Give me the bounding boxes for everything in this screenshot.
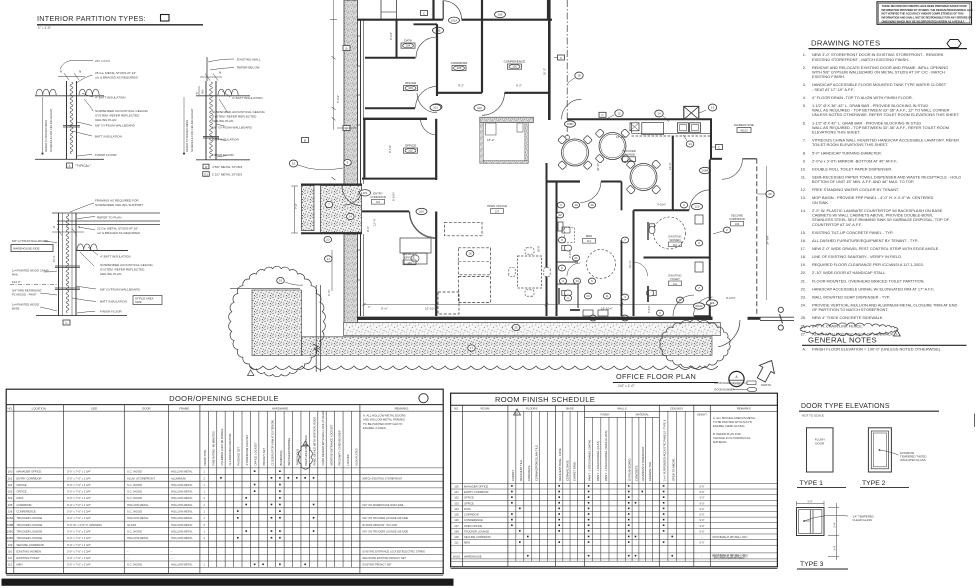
svg-text:104: 104 <box>406 44 411 48</box>
door type 1 <box>807 428 834 472</box>
svg-text:108: 108 <box>454 529 459 533</box>
svg-text:9'-0": 9'-0" <box>699 485 704 489</box>
corridor-conference bottom wall <box>437 92 482 94</box>
svg-text:EXISTING TOILET: EXISTING TOILET <box>17 556 40 560</box>
svg-text:10.: 10. <box>801 166 806 171</box>
bottom exterior wall <box>357 317 713 320</box>
svg-text:MEN: MEN <box>586 234 592 238</box>
svg-text:9'-0": 9'-0" <box>699 501 704 505</box>
svg-text:HOLLOW METAL: HOLLOW METAL <box>171 490 193 494</box>
svg-text:PASSAGE SET: PASSAGE SET <box>237 447 241 466</box>
svg-text:HOLLOW METAL: HOLLOW METAL <box>171 529 193 533</box>
svg-text:110: 110 <box>695 205 700 209</box>
svg-text:SIZE: SIZE <box>91 406 97 410</box>
svg-text:5.: 5. <box>803 103 806 108</box>
interior dimension line <box>364 304 710 306</box>
svg-text:14.: 14. <box>801 208 806 213</box>
svg-text:FINISH FLOOR: FINISH FLOOR <box>212 153 234 157</box>
gravel band with cloud <box>302 337 713 356</box>
svg-text:21: 21 <box>574 256 578 260</box>
svg-text:101: 101 <box>363 191 368 195</box>
svg-text:OFFICE: OFFICE <box>405 144 416 148</box>
svg-text:112: 112 <box>454 541 459 545</box>
svg-text:PLYWOOD - PAINT: PLYWOOD - PAINT <box>12 293 37 297</box>
svg-text:DRAWING NOTES: DRAWING NOTES <box>811 39 880 48</box>
svg-text:KEY ON WAREHOUSE W102 SIDE: KEY ON WAREHOUSE W102 SIDE <box>363 503 404 507</box>
svg-text:B: B <box>345 126 347 130</box>
svg-text:FINISH FLOOR: FINISH FLOOR <box>95 153 117 157</box>
svg-text:REFER TO PLAN: REFER TO PLAN <box>97 216 121 220</box>
existing sidewalk edge lines <box>315 285 317 372</box>
svg-text:3'-0" x 7'-0" x 1 3/4": 3'-0" x 7'-0" x 1 3/4" <box>67 543 91 547</box>
svg-text:STOREROOM LOCKSET: STOREROOM LOCKSET <box>245 434 249 465</box>
svg-text:3'-0" x 7'-0" x 1 3/4": 3'-0" x 7'-0" x 1 3/4" <box>67 556 91 560</box>
svg-text:9'-⅝": 9'-⅝" <box>366 226 370 232</box>
svg-text:CORRIDOR: CORRIDOR <box>451 61 469 65</box>
svg-text:102: 102 <box>454 496 459 500</box>
svg-text:ROOM NAME: ROOM NAME <box>715 381 732 385</box>
svg-text:OFFICE: OFFICE <box>17 483 27 487</box>
svg-text:30'-⅝": 30'-⅝" <box>596 163 600 171</box>
svg-text:3'-0" x 7'-0" x 1 3/4": 3'-0" x 7'-0" x 1 3/4" <box>67 529 91 533</box>
svg-text:BASE: BASE <box>566 407 574 411</box>
door arc into lounge <box>562 99 582 119</box>
svg-text:OFFICE LOCKSET: OFFICE LOCKSET <box>253 442 257 466</box>
svg-text:HARDWARE: HARDWARE <box>272 406 288 410</box>
svg-text:HOLLOW METAL: HOLLOW METAL <box>127 503 149 507</box>
svg-text:3'-0" x 7'-0" x 1 3/4": 3'-0" x 7'-0" x 1 3/4" <box>67 470 91 474</box>
svg-text:DOOR: DOOR <box>142 406 150 410</box>
svg-text:25: 25 <box>514 326 518 330</box>
svg-text:CEILING PLAN: CEILING PLAN <box>212 119 233 123</box>
svg-text:BUMPER(S): BUMPER(S) <box>279 450 283 465</box>
svg-text:14: 14 <box>688 142 692 146</box>
svg-text:6'-10⅝": 6'-10⅝" <box>392 192 396 201</box>
open office dashed workstations <box>445 222 483 236</box>
svg-text:SYSTEM -REFER REFLECTED: SYSTEM -REFER REFLECTED <box>212 115 257 119</box>
svg-text:ROOM NUMBER: ROOM NUMBER <box>715 388 735 392</box>
svg-text:109: 109 <box>454 535 459 539</box>
svg-text:34'-8⅝": 34'-8⅝" <box>766 235 770 245</box>
svg-text:CONCRETE: CONCRETE <box>527 465 531 481</box>
svg-text:CERAMIC/PORCELAIN TILE: CERAMIC/PORCELAIN TILE <box>535 445 539 481</box>
svg-text:9'-0": 9'-0" <box>699 541 704 545</box>
svg-text:CORRIDOR: CORRIDOR <box>17 503 32 507</box>
svg-text:4" FLOOR DRAIN -TOP TO ALIGN W: 4" FLOOR DRAIN -TOP TO ALIGN WITH FINISH… <box>812 95 913 100</box>
svg-text:PAINT - LATEX ENAMEL (FLAT): PAINT - LATEX ENAMEL (FLAT) <box>596 441 600 481</box>
svg-text:SYSTEM -REFER REFLECTED: SYSTEM -REFER REFLECTED <box>100 268 145 272</box>
entry door arc detail <box>344 193 362 206</box>
svg-text:15.: 15. <box>801 230 806 235</box>
office 103 walls <box>365 107 415 109</box>
svg-text:9'-0": 9'-0" <box>699 518 704 522</box>
svg-text:2.: 2. <box>803 65 806 70</box>
svg-text:FIRE RATING -90 MINUTES: FIRE RATING -90 MINUTES <box>211 431 215 465</box>
svg-text:109: 109 <box>735 222 740 226</box>
svg-text:CONFERENCE: CONFERENCE <box>464 518 483 522</box>
svg-text:EXISTING WOMEN: EXISTING WOMEN <box>17 549 41 553</box>
svg-text:3.: 3. <box>803 82 806 87</box>
svg-text:LOUVER: LOUVER <box>346 454 350 465</box>
svg-text:3'-0" x 7'-0" x 1 3/4": 3'-0" x 7'-0" x 1 3/4" <box>67 536 91 540</box>
svg-text:3'-0" x 7'-0" x 1 3/4": 3'-0" x 7'-0" x 1 3/4" <box>67 549 91 553</box>
exit door swing bottom right <box>718 320 740 347</box>
svg-text:S.C. WOOD: S.C. WOOD <box>127 496 142 500</box>
svg-text:CONFERENCE: CONFERENCE <box>17 510 36 514</box>
restroom block walls <box>546 163 548 316</box>
entry corridor bottom wall <box>362 210 409 212</box>
svg-text:4'-4⅝": 4'-4⅝" <box>647 305 651 313</box>
svg-text:108A: 108A <box>702 169 709 173</box>
svg-text:11: 11 <box>605 294 608 298</box>
svg-text:KEY ON TRUCKER LOUNGE 108 SIDE: KEY ON TRUCKER LOUNGE 108 SIDE <box>363 529 409 533</box>
svg-text:NEW 4" THICK CONCRETE SIDEWALK: NEW 4" THICK CONCRETE SIDEWALK. <box>812 315 883 320</box>
svg-text:103: 103 <box>408 86 413 90</box>
round tables with chairs <box>562 139 589 166</box>
svg-text:9'-0": 9'-0" <box>699 513 704 517</box>
svg-text:3'-0" x 7'-0" x 1 3/4": 3'-0" x 7'-0" x 1 3/4" <box>67 563 91 567</box>
partition detail B <box>206 57 208 81</box>
svg-text:HOLLOW METAL: HOLLOW METAL <box>171 536 193 540</box>
svg-text:OPEN OFFICE: OPEN OFFICE <box>487 204 507 208</box>
svg-text:BATT INSULATION: BATT INSULATION <box>100 300 127 304</box>
svg-text:PAINT - LATEX ENAMEL (SEMI-GLO: PAINT - LATEX ENAMEL (SEMI-GLOSS) <box>604 430 608 481</box>
svg-text:RAIL: RAIL <box>12 273 19 277</box>
svg-text:EXISTING PRIVACY SET: EXISTING PRIVACY SET <box>363 563 393 567</box>
svg-text:INFORMATION AND SHALL NOT BE R: INFORMATION AND SHALL NOT BE RESPONSIBLE… <box>882 16 973 20</box>
svg-text:ELEVATIONS THIS SHEET.: ELEVATIONS THIS SHEET. <box>812 130 860 135</box>
svg-text:MANAGER OFFICE: MANAGER OFFICE <box>17 470 42 474</box>
svg-text:19: 19 <box>279 279 283 283</box>
svg-text:WALL MOUNTED SOAP DISPENSER -: WALL MOUNTED SOAP DISPENSER - TYP.. <box>812 294 891 299</box>
svg-text:4": 4" <box>368 305 370 309</box>
trucker lounge north wall <box>567 118 712 120</box>
svg-text:3'-0" x 7'-0" x 1 3/4": 3'-0" x 7'-0" x 1 3/4" <box>67 483 91 487</box>
svg-text:INFORMATION PROVIDED BY OTHERS: INFORMATION PROVIDED BY OTHERS. THE DESI… <box>882 8 973 12</box>
svg-text:RECILIENT TILE: RECILIENT TILE <box>519 460 523 481</box>
svg-text:110: 110 <box>8 549 13 553</box>
secure corridor bottom wall <box>694 315 711 317</box>
svg-text:9'-2": 9'-2" <box>516 84 522 88</box>
existing closet walls (stippled) <box>480 117 534 122</box>
svg-text:REQUIRED FLOOR CLEARANCE PER I: REQUIRED FLOOR CLEARANCE PER ICC/ANSI A … <box>812 262 924 267</box>
svg-text:WAREHOUSE: WAREHOUSE <box>464 554 482 558</box>
svg-text:102: 102 <box>433 106 438 110</box>
svg-text:SCHEDULE FOR CEILING HEIGHT: SCHEDULE FOR CEILING HEIGHT <box>49 108 53 152</box>
svg-text:3'-0" W. x 3'-8" H. OPENING: 3'-0" W. x 3'-8" H. OPENING <box>67 523 102 527</box>
svg-text:OMISSIONS WHICH MAY BE INCORPO: OMISSIONS WHICH MAY BE INCORPORATED HERE… <box>882 19 966 23</box>
svg-text:MATCH EXISTING STOREFRONT: MATCH EXISTING STOREFRONT <box>363 476 403 480</box>
svg-text:4" BATT INSULATION: 4" BATT INSULATION <box>100 255 131 259</box>
svg-text:HOLLOW METAL: HOLLOW METAL <box>127 516 149 520</box>
svg-text:SECURE CORRIDOR: SECURE CORRIDOR <box>17 543 44 547</box>
svg-text:3 5/8" METAL STUDS: 3 5/8" METAL STUDS <box>212 165 242 169</box>
svg-text:HOLLOW METAL: HOLLOW METAL <box>171 496 193 500</box>
svg-text:110: 110 <box>673 243 678 247</box>
svg-text:PROXIMITY CARD READER: PROXIMITY CARD READER <box>338 430 342 465</box>
sidewalk band <box>344 323 721 336</box>
delta triangle note 27 <box>894 330 901 336</box>
svg-text:WALLS: WALLS <box>617 407 627 411</box>
svg-text:15'-4": 15'-4" <box>53 256 56 262</box>
svg-text:SYSTEM -REFER REFLECTED: SYSTEM -REFER REFLECTED <box>95 114 140 118</box>
svg-text:BI-PASS WINDOW - W/ LOCK: BI-PASS WINDOW - W/ LOCK <box>363 523 398 527</box>
svg-text:PAINT - LATEX ENAMEL (SATIN): PAINT - LATEX ENAMEL (SATIN) <box>588 440 592 481</box>
kitchen counter <box>632 135 711 137</box>
svg-text:S.C. WOOD: S.C. WOOD <box>127 483 142 487</box>
svg-text:13: 13 <box>711 106 715 110</box>
svg-text:GLASS: GLASS <box>127 523 136 527</box>
svg-text:14'-⅝": 14'-⅝" <box>668 162 672 170</box>
svg-text:112: 112 <box>8 563 13 567</box>
svg-text:- SEAT AT 17"-19" A.F.F..: - SEAT AT 17"-19" A.F.F.. <box>812 87 855 92</box>
svg-text:CARPET BASE: CARPET BASE <box>573 462 577 481</box>
svg-text:REMARKS: REMARKS <box>395 406 409 410</box>
svg-text:108A: 108A <box>7 516 14 520</box>
svg-text:DOOR TYPE: DOOR TYPE <box>203 450 207 466</box>
warehouse/lounge east wall <box>710 119 712 159</box>
svg-text:A: A <box>68 164 70 168</box>
svg-text:5'-6⅝": 5'-6⅝" <box>336 95 340 103</box>
svg-text:3'-0" x 7'-0" x 1 3/4": 3'-0" x 7'-0" x 1 3/4" <box>67 476 91 480</box>
svg-text:HOLLOW METAL: HOLLOW METAL <box>127 536 149 540</box>
svg-text:105: 105 <box>8 503 13 507</box>
svg-text:2 x 4 SUSPENDED ACOUSTIC PANEL: 2 x 4 SUSPENDED ACOUSTIC PANELS -TYPE II <box>663 420 667 481</box>
svg-text:106: 106 <box>498 13 503 17</box>
svg-text:105: 105 <box>457 66 462 70</box>
svg-text:15'-10⅝": 15'-10⅝" <box>601 307 613 311</box>
svg-text:HOLLOW METAL: HOLLOW METAL <box>171 510 193 514</box>
svg-text:18: 18 <box>577 74 581 78</box>
svg-text:HOLLOW METAL: HOLLOW METAL <box>171 516 193 520</box>
handicap turning circles <box>587 250 616 279</box>
svg-text:106: 106 <box>512 65 517 69</box>
svg-text:108D: 108D <box>567 122 574 126</box>
svg-text:2'-4": 2'-4" <box>833 522 837 527</box>
svg-text:RELOCATE EXISTING PRIVACY SET: RELOCATE EXISTING PRIVACY SET <box>363 556 407 560</box>
svg-text:111: 111 <box>8 556 13 560</box>
svg-text:S.C. WOOD: S.C. WOOD <box>127 470 142 474</box>
svg-text:17: 17 <box>470 346 474 350</box>
svg-text:CORRIDOR: CORRIDOR <box>464 513 479 517</box>
svg-text:9.: 9. <box>803 158 806 163</box>
revision cloud right end of gravel <box>660 319 730 368</box>
svg-text:22 Ga. METAL STUDS AT 16": 22 Ga. METAL STUDS AT 16" <box>97 227 138 231</box>
svg-text:FLOORS: FLOORS <box>526 407 538 411</box>
svg-text:100: 100 <box>454 485 459 489</box>
svg-text:24.: 24. <box>801 302 806 307</box>
svg-text:INTERIOR PARTITION TYPES:: INTERIOR PARTITION TYPES: <box>37 14 146 23</box>
svg-text:3'-4": 3'-4" <box>833 545 837 550</box>
svg-text:GENERAL NOTES: GENERAL NOTES <box>808 335 877 344</box>
chain link fence dashed <box>756 159 758 316</box>
svg-text:SUSPENDED ACOUSTICAL CEILING: SUSPENDED ACOUSTICAL CEILING <box>100 263 153 267</box>
svg-text:CLOSER (STOP ARM AT EXTERIOR): CLOSER (STOP ARM AT EXTERIOR) <box>270 420 274 466</box>
svg-text:106: 106 <box>8 510 13 514</box>
svg-text:15: 15 <box>292 162 296 166</box>
svg-text:TYPE 1: TYPE 1 <box>800 480 824 487</box>
svg-text:108D: 108D <box>7 536 14 540</box>
svg-text:26: 26 <box>768 192 772 196</box>
toilets and lavs <box>562 290 572 296</box>
svg-text:CLASSROOM FUNCTION: CLASSROOM FUNCTION <box>228 434 232 466</box>
svg-text:OPEN OFFICE: OPEN OFFICE <box>464 524 482 528</box>
svg-text:108: 108 <box>627 158 632 162</box>
svg-text:CLEAR GLASS: CLEAR GLASS <box>853 518 873 522</box>
svg-text:9'-0": 9'-0" <box>699 524 704 528</box>
svg-text:SECURE CORRIDOR: SECURE CORRIDOR <box>464 535 491 539</box>
north/drawing bubble <box>729 371 744 386</box>
svg-text:100: 100 <box>419 210 424 214</box>
conference right wall <box>548 0 551 120</box>
wall office/data <box>396 20 398 58</box>
svg-text:108C: 108C <box>7 529 14 533</box>
svg-text:6'-⅝": 6'-⅝" <box>327 290 331 296</box>
svg-text:HEIGHT: HEIGHT <box>697 413 707 417</box>
svg-text:5'-0" HANDICAP TURNING DIAMETE: 5'-0" HANDICAP TURNING DIAMETER. <box>812 150 882 155</box>
svg-text:106: 106 <box>477 106 482 110</box>
svg-text:112: 112 <box>587 239 592 243</box>
svg-text:EXISTING STOREFRONT - MATCH EX: EXISTING STOREFRONT - MATCH EXISTING FIN… <box>812 57 909 62</box>
svg-text:10: 10 <box>574 203 578 207</box>
svg-text:TRUCKER LOUNGE: TRUCKER LOUNGE <box>17 529 43 533</box>
svg-text:B: B <box>304 138 306 142</box>
svg-text:6": 6" <box>195 92 199 94</box>
svg-text:HOLLOW METAL: HOLLOW METAL <box>171 483 193 487</box>
svg-text:104: 104 <box>8 496 13 500</box>
svg-text:OFFICE: OFFICE <box>464 496 474 500</box>
svg-text:PEEP-HOLE/ BAR LOCK: PEEP-HOLE/ BAR LOCK <box>304 435 308 466</box>
DATA room walls <box>365 57 416 59</box>
lounge/corridor divider wall <box>672 136 674 210</box>
svg-text:MEN: MEN <box>464 541 470 545</box>
svg-text:9'-0": 9'-0" <box>699 507 704 511</box>
svg-text:FLOOR MOUNTED, OVERHEAD BRACED: FLOOR MOUNTED, OVERHEAD BRACED TOILET PA… <box>812 278 925 283</box>
svg-text:INSULATED GLASS: INSULATED GLASS <box>900 458 926 462</box>
svg-text:HOLLOW METAL: HOLLOW METAL <box>171 470 193 474</box>
svg-text:MIN.: MIN. <box>202 89 205 94</box>
DOOR/OPENING SCHEDULE table <box>6 389 443 573</box>
svg-text:ENTRY CORRIDOR: ENTRY CORRIDOR <box>17 476 42 480</box>
svg-text:3'-0" x 7'-0" x 1 3/4": 3'-0" x 7'-0" x 1 3/4" <box>67 503 91 507</box>
svg-text:HOLLOW METAL: HOLLOW METAL <box>171 523 193 527</box>
svg-text:1" = 1'-0": 1" = 1'-0" <box>38 26 51 30</box>
svg-text:ROOM FINISH SCHEDULE: ROOM FINISH SCHEDULE <box>495 395 595 404</box>
svg-text:S.C. WOOD: S.C. WOOD <box>127 529 142 533</box>
svg-text:ROOM: ROOM <box>481 407 490 411</box>
svg-text:TRUCKER LOUNGE: TRUCKER LOUNGE <box>17 523 43 527</box>
svg-text:101A: 101A <box>451 18 458 22</box>
svg-text:CERAMIC TILE: CERAMIC TILE <box>648 462 652 481</box>
svg-text:105: 105 <box>454 513 459 517</box>
svg-text:NO.: NO. <box>454 407 459 411</box>
svg-text:OF PARTITION TO MATCH STOREFRO: OF PARTITION TO MATCH STOREFRONT. <box>812 307 888 312</box>
svg-text:HOLLOW METAL: HOLLOW METAL <box>171 563 193 567</box>
svg-text:12.: 12. <box>801 187 806 192</box>
svg-text:THESE RECORD DOCUMENTS HAVE BE: THESE RECORD DOCUMENTS HAVE BEEN PREPARE… <box>882 4 967 8</box>
svg-text:9'-6⅝": 9'-6⅝" <box>389 32 393 40</box>
svg-text:101: 101 <box>454 490 459 494</box>
svg-text:PANIC DEVICE WITH VERTICAL ROD: PANIC DEVICE WITH VERTICAL RODS <box>312 417 316 466</box>
delta triangle <box>248 370 254 376</box>
partition detail C <box>52 212 160 214</box>
svg-text:21.: 21. <box>801 278 806 283</box>
svg-text:5/8" GYPSUM WALLBOARD: 5/8" GYPSUM WALLBOARD <box>212 126 253 130</box>
svg-text:- INCLUDES DEMISING WALL: - INCLUDES DEMISING WALL <box>713 557 746 560</box>
svg-text:BASE: BASE <box>12 307 20 311</box>
svg-text:ALL DASHED FURNITURE/EQUIPMENT: ALL DASHED FURNITURE/EQUIPMENT BY TENANT… <box>812 238 919 243</box>
svg-text:ALUMINUM STOREFRONT: ALUMINUM STOREFRONT <box>641 446 645 481</box>
fence line to right <box>760 316 794 318</box>
svg-text:KEY ON TRUCKER LOUNGE 108 SIDE: KEY ON TRUCKER LOUNGE 108 SIDE <box>363 516 409 520</box>
svg-text:A.: A. <box>802 347 806 352</box>
svg-text:107: 107 <box>495 209 500 213</box>
scallop line bottom <box>250 366 718 370</box>
svg-text:23: 23 <box>586 294 590 298</box>
svg-text:13.: 13. <box>801 195 806 200</box>
svg-text:NO.: NO. <box>8 406 13 410</box>
svg-text:FRAME: FRAME <box>179 406 189 410</box>
svg-text:NOT VERIFIED THE ACCURACY AND/: NOT VERIFIED THE ACCURACY AND/OR COMPLET… <box>882 12 964 16</box>
svg-text:WOMEN: WOMEN <box>669 238 680 242</box>
cloud around note 27 <box>800 323 898 336</box>
svg-text:7.: 7. <box>803 138 806 143</box>
disclaimer box top right <box>877 2 972 25</box>
svg-text:11.: 11. <box>801 174 806 179</box>
svg-text:HOLLOW METAL: HOLLOW METAL <box>171 503 193 507</box>
svg-text:CONCRETE: CONCRETE <box>634 465 638 481</box>
mop basin X-box <box>684 106 699 119</box>
entry walkway stipple <box>321 186 362 233</box>
svg-text:DATA: DATA <box>464 507 471 511</box>
svg-text:SIDE: SIDE <box>135 300 142 304</box>
svg-text:2'-0"w x 3'-0"h MIRROR -BOTTOM: 2'-0"w x 3'-0"h MIRROR -BOTTOM AT 40" AF… <box>812 158 898 163</box>
svg-text:9'-⅝": 9'-⅝" <box>381 307 388 311</box>
svg-text:20.: 20. <box>801 270 806 275</box>
svg-text:FRAMING AS REQUIRED FOR: FRAMING AS REQUIRED FOR <box>95 199 139 203</box>
svg-text:108B: 108B <box>7 523 14 527</box>
svg-text:3'-0" x 7'-0" x 1 3/4": 3'-0" x 7'-0" x 1 3/4" <box>67 516 91 520</box>
svg-text:TOILET: TOILET <box>670 277 680 281</box>
exterior tilt-up concrete wall (hatched) <box>344 0 358 184</box>
svg-text:OFFICE: OFFICE <box>405 81 416 85</box>
svg-text:MATERIAL: MATERIAL <box>636 413 650 417</box>
svg-text:SUSPENDED ACOUSTICAL CEILING: SUSPENDED ACOUSTICAL CEILING <box>212 110 265 114</box>
open office square table <box>518 256 542 288</box>
svg-text:FINISH: FINISH <box>600 413 609 417</box>
svg-text:106: 106 <box>454 518 459 522</box>
svg-text:W102: W102 <box>453 554 461 558</box>
svg-text:B: B <box>345 46 347 50</box>
svg-text:MORTISE ENTRANCE LOCKSET: MORTISE ENTRANCE LOCKSET <box>329 424 333 465</box>
svg-text:DATA: DATA <box>404 39 413 43</box>
svg-text:CEILINGS: CEILINGS <box>670 407 683 411</box>
svg-text:9'-10⅝": 9'-10⅝" <box>726 296 736 300</box>
svg-text:TYPE 2: TYPE 2 <box>862 480 886 487</box>
svg-text:ENAMEL (SEMI-GLOSS).: ENAMEL (SEMI-GLOSS). <box>713 424 745 428</box>
svg-text:REFER TO ROOM FINISH: REFER TO ROOM FINISH <box>185 120 189 152</box>
svg-text:25 Ga. METAL STUDS AT 24": 25 Ga. METAL STUDS AT 24" <box>95 71 136 75</box>
svg-text:4'-10⅝": 4'-10⅝" <box>657 203 666 207</box>
svg-text:1.: 1. <box>803 52 806 57</box>
svg-text:CONFERENCE: CONFERENCE <box>504 60 526 64</box>
svg-text:16'-4⅝": 16'-4⅝" <box>616 135 626 139</box>
door type 2 <box>868 428 891 472</box>
svg-text:EXISTING FINISH.: EXISTING FINISH. <box>812 74 845 79</box>
bollards <box>778 307 783 312</box>
svg-text:PAINT/BASE AT DRYWALL ONLY: PAINT/BASE AT DRYWALL ONLY <box>713 536 749 539</box>
office 102 walls <box>363 118 427 120</box>
